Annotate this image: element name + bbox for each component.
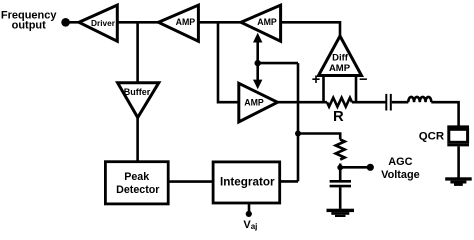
capacitor (series coupling, two vertical plates) (385, 94, 387, 111)
svg-text:QCR: QCR (419, 131, 444, 143)
wire: inductor to crystal QCR (431, 102, 458, 125)
resistor (AGC filter, vertical zigzag) (336, 140, 345, 160)
svg-text:output: output (12, 19, 47, 31)
wire: junction to AGC resistor chain (298, 134, 340, 140)
wire: capacitor to ground (339, 187, 342, 209)
inductor (series, 4 humps) (408, 97, 431, 102)
op-amp AMP1 (159, 5, 199, 41)
wire: Diff AMP minus input leg (355, 76, 358, 103)
crystal QCR (plate-box-plate) (447, 125, 469, 128)
wire: AGC junction to terminal (340, 166, 370, 169)
wire: middle AMP output to resistor R (278, 101, 328, 104)
svg-text:Detector: Detector (116, 184, 159, 196)
op-amp middle AMP (variable gain) (239, 83, 278, 122)
svg-text:−: − (359, 72, 367, 88)
wire: AMP1 to AMP2 (198, 21, 241, 24)
node: Vaj terminal dot (246, 211, 252, 217)
svg-text:Driver: Driver (91, 18, 116, 28)
wire: R to series capacitor (352, 101, 386, 104)
block: Integrator box (213, 162, 280, 203)
wire: junction to feedback vertical (258, 62, 298, 65)
wire: buffer tap vertical (136, 22, 139, 82)
op-amp Buffer (118, 83, 159, 118)
wire: Buffer output to Peak Detector (136, 118, 139, 162)
wire: resistor to AGC node (339, 164, 342, 181)
svg-text:Peak: Peak (124, 171, 149, 183)
wire: capacitor to inductor (392, 101, 409, 104)
svg-text:AGC: AGC (388, 156, 412, 168)
svg-text:AMP: AMP (329, 63, 351, 74)
wire: Vaj stub under Integrator (248, 203, 251, 212)
node: junction on arrow wire (255, 60, 261, 66)
wire: Diff AMP plus input leg (322, 76, 325, 103)
wire: output dot to Driver apex (66, 21, 80, 24)
svg-text:Integrator: Integrator (220, 175, 275, 188)
svg-text:AMP: AMP (176, 17, 196, 27)
svg-text:Vaj: Vaj (243, 219, 257, 231)
op-amp Driver (79, 5, 117, 41)
wire: crystal to ground (457, 146, 460, 177)
ground (under AGC capacitor) (327, 209, 355, 217)
op-amp Diff AMP (319, 36, 362, 76)
wire: Integrator output to feedback line (280, 180, 298, 183)
resistor R (series, horizontal zigzag) (327, 98, 352, 107)
node: AGC junction (337, 165, 343, 171)
svg-text:Buffer: Buffer (124, 87, 151, 97)
ground (under crystal) (445, 177, 472, 186)
node: AGC Voltage terminal dot (367, 164, 374, 171)
svg-text:+: + (312, 72, 320, 88)
wire: tap to middle AMP input (L-shape) (218, 22, 239, 102)
svg-text:Voltage: Voltage (381, 169, 420, 181)
capacitor (AGC filter, two horizontal plates) (330, 180, 351, 183)
block: Peak Detector box (105, 162, 168, 204)
wire: Driver to AMP1 (117, 21, 159, 24)
node: junction on feedback line (295, 131, 301, 137)
svg-text:AMP: AMP (244, 97, 264, 107)
wire: AMP2 input from Diff AMP output (281, 22, 340, 37)
node: frequency output terminal dot (61, 18, 70, 27)
svg-text:R: R (333, 109, 344, 125)
wire: feedback vertical line (297, 63, 300, 181)
wire: Peak Detector to Integrator (168, 180, 213, 183)
op-amp AMP2 (241, 5, 281, 41)
gain-control double arrow between AMP2 and middle AMP (256, 38, 259, 82)
svg-text:AMP: AMP (257, 17, 277, 27)
svg-text:Diff: Diff (332, 53, 349, 64)
